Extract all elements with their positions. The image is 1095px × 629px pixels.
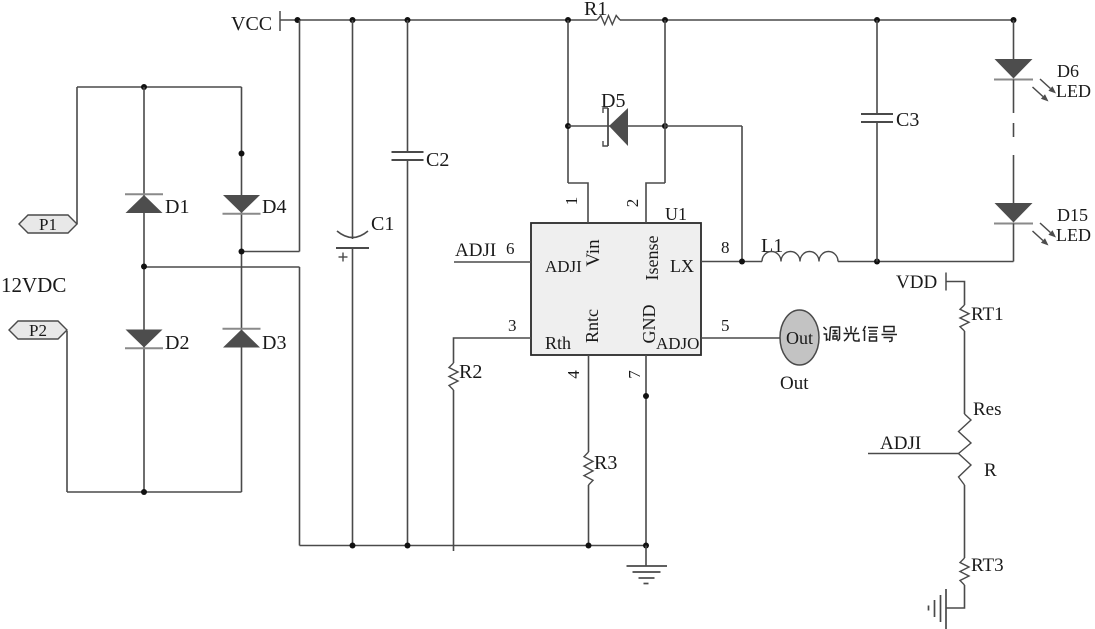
svg-text:Res: Res [973,399,1002,420]
ground symbol right [945,589,947,629]
LED D6 [995,59,1033,79]
junction LX feed [739,259,745,265]
wire C3 top lead [876,20,878,114]
svg-text:Out: Out [780,373,809,394]
svg-text:2: 2 [623,199,642,208]
wire VDD stub [946,282,965,306]
junction D4 upper [239,151,245,157]
junction bridge mid [141,264,147,270]
resistor Res-R divider [959,414,972,485]
wire pin 8 [701,261,762,263]
junction top C3 [874,17,880,23]
port P2 [9,321,67,339]
junction C3 bottom [874,259,880,265]
polarity + of C1 [339,256,348,258]
junction gnd C1 [350,543,356,549]
junction bridge top D1 [141,84,147,90]
wire pin 5 [701,337,781,339]
svg-text:LX: LX [670,256,694,276]
wire bridge top [77,86,242,88]
svg-text:6: 6 [506,239,515,258]
svg-text:VCC: VCC [231,13,272,35]
wire C3 bottom lead [876,122,878,262]
wire D5 left vertical [567,20,569,183]
junction top D5-left [565,17,571,23]
junction bridge bottom [141,489,147,495]
svg-text:12VDC: 12VDC [1,273,66,297]
svg-text:ADJI: ADJI [545,257,582,276]
svg-text:ADJO: ADJO [656,334,699,353]
junction pin 7 [643,393,649,399]
junction D5 left [565,123,571,129]
svg-text:Rntc: Rntc [582,309,602,343]
thermistor RT1 [960,305,969,331]
svg-text:4: 4 [564,370,583,379]
wire C2 bottom lead [407,160,409,546]
wire R2 bottom lead [453,390,455,551]
wire D5 row [568,125,665,127]
svg-text:C2: C2 [426,149,449,171]
junction top C1 [350,17,356,23]
diode D1 [126,195,163,213]
svg-text:L1: L1 [761,235,783,257]
wire bridge mid node [144,266,300,268]
svg-text:D2: D2 [165,332,189,354]
svg-text:D6: D6 [1057,61,1079,81]
capacitor C1 [337,231,368,238]
junction D4 lower [239,249,245,255]
label dimming-signal (Chinese) [824,327,827,330]
wire VCC top rail right [620,19,1014,21]
IC U1 body [531,223,701,355]
wire D1-D2 column [143,87,145,492]
svg-text:8: 8 [721,238,730,257]
wire R to RT3 [964,485,966,558]
junction top LED [1011,17,1017,23]
wire C1 bottom lead [352,248,354,546]
svg-text:D1: D1 [165,196,189,218]
svg-text:5: 5 [721,316,730,335]
svg-text:R1: R1 [584,0,607,20]
wire R3 bottom lead [588,485,590,546]
diode D5 [609,108,628,146]
junction top R1-right [662,17,668,23]
svg-text:D15: D15 [1057,205,1088,225]
svg-text:3: 3 [508,316,517,335]
svg-text:Vin: Vin [583,239,604,267]
svg-text:R3: R3 [594,452,617,474]
svg-text:R: R [984,460,997,481]
wire ground rail [300,545,647,547]
wire RT1 to Res [964,331,966,414]
svg-text:7: 7 [625,370,644,379]
capacitor C2 [392,151,424,153]
svg-text:RT1: RT1 [971,304,1004,325]
wire pin 1 stub [568,183,588,223]
wire VCC top rail left [280,19,597,21]
svg-text:1: 1 [562,197,581,206]
wire ADJI tap [868,453,959,455]
wire pin 7 lead [645,355,647,546]
wire LED chain top lead [1013,20,1015,59]
port P1 [19,215,77,233]
wire pin 2 stub [646,183,665,223]
wire LED chain bottom lead [1013,224,1015,262]
thermistor RT3 [960,558,969,585]
wire RT3 bottom [946,585,965,608]
wire D4 cathode tap [242,251,300,253]
ground symbol center [645,546,647,567]
wire Isense feed [665,125,742,127]
junction gnd R3 [586,543,592,549]
svg-text:C1: C1 [371,213,394,235]
diode D4 [223,195,260,213]
svg-text:D3: D3 [262,332,286,354]
svg-text:ADJI: ADJI [880,433,921,454]
svg-text:Rth: Rth [545,333,571,353]
svg-text:VDD: VDD [896,272,937,293]
svg-text:D5: D5 [601,90,625,112]
wire VCC tap rail [299,20,301,252]
LED D15 [995,203,1033,223]
wire bridge bottom [67,491,242,493]
wire GND left rail [299,267,301,546]
svg-text:C3: C3 [896,109,919,131]
junction gnd pin7 [643,543,649,549]
diode D2 [126,330,163,348]
wire P2 rail [66,331,68,492]
wire P1 rail [76,87,78,224]
wire D5 right vertical [664,20,666,183]
svg-text:Isense: Isense [642,235,662,280]
resistor R2 [449,363,458,390]
wire LX output [838,261,1014,263]
svg-text:U1: U1 [665,204,687,224]
wire D4-D3 column [241,87,243,492]
wire LED dash [1013,123,1015,137]
wire pin 4 lead [588,355,590,452]
wire pin 6 [454,261,531,263]
LED D15 arrows [1040,223,1050,233]
inductor L1 [762,252,838,262]
junction top C2 [405,17,411,23]
svg-text:LED: LED [1056,225,1091,245]
svg-text:P2: P2 [29,321,47,340]
svg-text:Out: Out [786,328,813,348]
wire pin 3 [454,338,532,363]
svg-text:R2: R2 [459,361,482,383]
wire LED mid upper [1013,80,1015,114]
wire C1 top lead [352,20,354,239]
LED D6 arrows [1040,79,1050,89]
resistor R3 [584,452,593,485]
svg-text:D4: D4 [262,196,286,218]
svg-text:ADJI: ADJI [455,240,496,261]
junction gnd C2 [405,543,411,549]
svg-text:P1: P1 [39,215,57,234]
svg-text:RT3: RT3 [971,555,1004,576]
svg-text:LED: LED [1056,81,1091,101]
resistor R1 [597,16,620,25]
node Out [780,310,819,365]
junction top C1-tap [295,17,301,23]
junction D5 right [662,123,668,129]
wire C2 top lead [407,20,409,152]
diode D3 [223,330,260,348]
wire LED mid lower [1013,155,1015,203]
capacitor C3 [861,113,893,115]
